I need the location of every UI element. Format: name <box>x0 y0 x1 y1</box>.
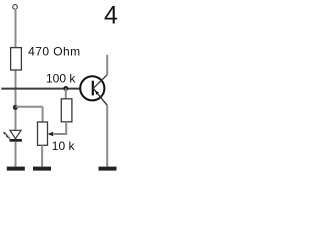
svg-text:10 k: 10 k <box>52 139 76 153</box>
svg-text:4: 4 <box>104 1 118 29</box>
svg-text:470 Ohm: 470 Ohm <box>28 44 81 58</box>
svg-text:100 k: 100 k <box>46 71 76 85</box>
